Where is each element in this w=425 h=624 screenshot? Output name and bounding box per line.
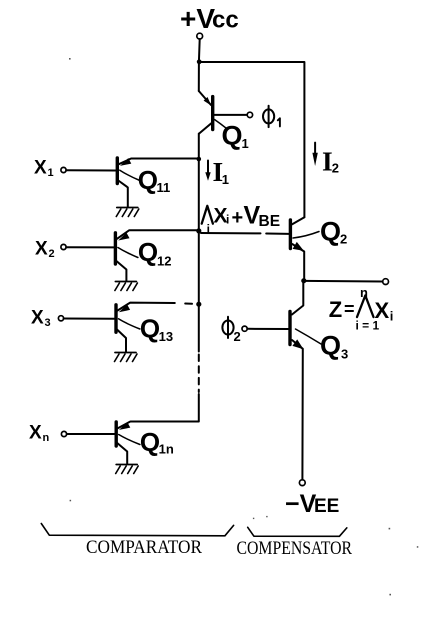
svg-text:1: 1 [48, 167, 54, 179]
node: Q11 junction [197, 157, 202, 162]
svg-text:X: X [29, 423, 42, 444]
transistor Q2 [290, 217, 347, 281]
node: Q13 junction [196, 302, 201, 307]
svg-text:Q: Q [320, 217, 341, 247]
label: AND(Xi)+VBE node voltage [202, 202, 280, 236]
label: Z = AND of Xi [329, 285, 394, 333]
svg-text:13: 13 [159, 329, 173, 344]
ground (Q13 emitter) [115, 353, 138, 362]
svg-text:1n: 1n [159, 442, 174, 457]
svg-text:2: 2 [49, 248, 55, 260]
wire: top horizontal to right rail and down to Q2 collector [199, 62, 304, 217]
transistor Q13 [116, 303, 192, 352]
svg-text:Q: Q [320, 331, 341, 361]
power terminal +VCC [180, 3, 239, 39]
terminal phi2 (clock input) [222, 317, 288, 344]
svg-text:X: X [31, 308, 44, 329]
svg-text:X: X [35, 239, 48, 260]
wire: left rail Q13 node to dashed section [198, 304, 200, 351]
power terminal -VEE [285, 480, 339, 518]
wire: rail bottom, corner to Q1n [131, 394, 199, 422]
svg-text:n: n [43, 432, 50, 444]
svg-text:=: = [344, 299, 355, 319]
node: wired-AND node (Xi+VBE) [196, 228, 201, 233]
svg-text:Z: Z [329, 297, 342, 322]
wire: left rail Q11 node down to AND node [198, 159, 200, 231]
node: Vcc rail junction [197, 59, 202, 64]
wire: dashed rail continuation [198, 355, 200, 393]
svg-text:−V: −V [285, 490, 317, 518]
svg-text:+V: +V [180, 3, 215, 34]
svg-text:EE: EE [314, 496, 339, 517]
transistor Q3 [290, 281, 348, 480]
input terminal X1 [34, 158, 116, 180]
svg-text:11: 11 [157, 180, 171, 195]
svg-text:2: 2 [234, 329, 241, 344]
svg-text:cc: cc [212, 7, 239, 34]
transistor Q11 [117, 158, 199, 207]
svg-text:2: 2 [340, 232, 347, 247]
svg-text:Q: Q [140, 313, 160, 343]
svg-text:i: i [226, 213, 229, 227]
svg-text:3: 3 [341, 347, 348, 362]
wire: output to terminal [304, 280, 383, 283]
svg-text:3: 3 [45, 317, 51, 329]
scan speckles [69, 58, 418, 595]
svg-text:Q: Q [138, 237, 158, 267]
brace: comparator section [41, 524, 233, 536]
svg-text:BE: BE [259, 213, 281, 230]
ground (Q12 emitter) [115, 282, 137, 291]
current arrow I1 [205, 156, 229, 187]
transistor Q1n [116, 422, 174, 464]
ground (Q1n emitter) [116, 465, 139, 474]
input terminal X3 [31, 308, 114, 330]
wire: AND node to Q2 base (broken scan line) [201, 232, 289, 235]
wire: Vcc terminal down to Q1 emitter [198, 39, 201, 91]
svg-text:X: X [34, 158, 47, 179]
node: output junction [301, 278, 306, 283]
ground (Q11 emitter) [116, 208, 139, 217]
transistor Q12 [115, 230, 196, 281]
wire: left rail Q1 collector down to Q11 node [198, 134, 200, 159]
current arrow I2 [312, 143, 339, 177]
svg-text:i: i [390, 309, 394, 324]
svg-text:1: 1 [242, 136, 249, 151]
svg-text:2: 2 [332, 161, 339, 176]
wire: left rail AND node down to Q13 node [198, 231, 200, 304]
input terminal Xn [29, 423, 114, 445]
transistor Q1 [199, 91, 249, 151]
brace: compensator section [248, 527, 347, 536]
svg-text:12: 12 [157, 254, 171, 269]
input terminal X2 [35, 239, 114, 261]
svg-text:COMPARATOR: COMPARATOR [86, 537, 202, 558]
svg-text:COMPENSATOR: COMPENSATOR [237, 538, 353, 559]
svg-text:Q: Q [138, 165, 158, 195]
svg-text:1: 1 [222, 172, 229, 187]
svg-text:+: + [232, 207, 244, 229]
svg-text:i = 1: i = 1 [356, 319, 380, 333]
svg-text:Q: Q [140, 427, 160, 457]
output terminal Z [383, 279, 389, 285]
terminal phi1 (clock input) [247, 106, 280, 127]
svg-text:Q: Q [222, 121, 243, 151]
